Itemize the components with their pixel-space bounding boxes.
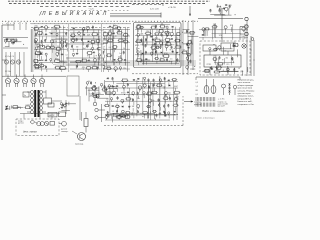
svg-text:0,047: 0,047: [26, 105, 30, 107]
svg-text:100: 100: [138, 113, 141, 115]
svg-text:транзисторов: транзисторов: [238, 93, 252, 95]
svg-text:C47: C47: [123, 48, 126, 50]
svg-text:УПЧ: УПЧ: [219, 35, 222, 37]
svg-text:Тр2: Тр2: [40, 63, 43, 65]
svg-text:ВЧ: ВЧ: [60, 65, 62, 67]
svg-text:5,6к: 5,6к: [168, 92, 171, 94]
svg-text:дет. канал: дет. канал: [23, 130, 37, 134]
svg-text:С15: С15: [226, 64, 229, 66]
svg-text:заны относит.: заны относит.: [238, 82, 252, 84]
svg-text:2,2к: 2,2к: [224, 51, 227, 53]
svg-text:розетке: розетке: [194, 104, 202, 106]
svg-text:0,5: 0,5: [66, 55, 68, 57]
svg-text:C47: C47: [108, 115, 111, 117]
svg-text:Напряжения ука-: Напряжения ука-: [238, 80, 255, 82]
svg-text:100: 100: [242, 36, 245, 38]
svg-text:0,047: 0,047: [17, 107, 21, 109]
svg-text:КТ315: КТ315: [11, 38, 16, 40]
svg-text:КТ315: КТ315: [207, 64, 212, 66]
svg-text:ПТК: ПТК: [164, 96, 167, 98]
svg-text:R2 10к: R2 10к: [5, 71, 11, 73]
svg-text:4,7: 4,7: [113, 24, 115, 26]
svg-text:100: 100: [88, 81, 91, 83]
svg-text:0,5 1к2 С4: 0,5 1к2 С4: [5, 56, 14, 58]
svg-text:УПЧ: УПЧ: [152, 39, 155, 41]
svg-text:УПЧ: УПЧ: [123, 68, 126, 70]
svg-text:УПЧ: УПЧ: [146, 31, 149, 33]
svg-text:33к: 33к: [226, 58, 229, 60]
svg-text:R7: R7: [118, 57, 120, 59]
svg-text:метром ВК7-9.: метром ВК7-9.: [238, 98, 252, 100]
svg-text:4,7: 4,7: [103, 47, 105, 49]
svg-text:0,047: 0,047: [174, 86, 178, 88]
svg-text:100: 100: [120, 113, 123, 115]
svg-text:33к: 33к: [76, 47, 79, 49]
svg-text:100: 100: [57, 46, 60, 48]
svg-text:100: 100: [46, 45, 49, 47]
svg-text:Подп. с Умножит.: Подп. с Умножит.: [202, 109, 226, 113]
svg-text:присоед.: присоед.: [75, 144, 84, 146]
svg-text:Л Е В Ы Й К А Н А Л: Л Е В Ы Й К А Н А Л: [41, 9, 107, 17]
svg-text:0,5: 0,5: [109, 47, 111, 49]
svg-text:Тр2: Тр2: [213, 24, 216, 26]
svg-text:VT3: VT3: [229, 5, 232, 7]
svg-text:0,25 1,2В: 0,25 1,2В: [150, 9, 159, 11]
svg-text:VT3: VT3: [92, 65, 95, 67]
svg-text:Д9Б: Д9Б: [140, 34, 143, 36]
svg-text:Др1: Др1: [83, 48, 86, 50]
svg-text:10k: 10k: [72, 38, 75, 40]
svg-text:Др1: Др1: [117, 30, 120, 32]
svg-text:C47: C47: [156, 45, 159, 47]
svg-text:0,1: 0,1: [196, 94, 199, 96]
svg-text:сопротивл. в Ом.: сопротивл. в Ом.: [238, 104, 255, 106]
svg-text:10k: 10k: [132, 106, 135, 108]
svg-text:0,5: 0,5: [160, 57, 162, 59]
svg-text:2,2к: 2,2к: [51, 45, 54, 47]
svg-text:0,047: 0,047: [175, 96, 179, 98]
svg-text:2,2к: 2,2к: [136, 39, 139, 41]
svg-text:к СВ-ПЧ: к СВ-ПЧ: [168, 7, 176, 9]
svg-text:0,5: 0,5: [170, 59, 172, 61]
svg-text:1,2: 1,2: [196, 86, 199, 88]
svg-text:= 1 ЭС: = 1 ЭС: [218, 99, 225, 101]
svg-text:КТ315: КТ315: [121, 93, 126, 95]
svg-text:Д2Е: Д2Е: [87, 34, 90, 36]
svg-text:Подп. в благодарн.: Подп. в благодарн.: [197, 117, 215, 120]
svg-text:Д9Б: Д9Б: [90, 96, 93, 98]
svg-text:VT3: VT3: [103, 39, 106, 41]
svg-text:КТ315: КТ315: [96, 93, 101, 95]
svg-text:Др1: Др1: [103, 31, 106, 33]
svg-text:100: 100: [185, 50, 188, 52]
svg-text:общего провода: общего провода: [238, 85, 254, 87]
svg-text:1к2: 1к2: [106, 98, 109, 100]
svg-text:VT3: VT3: [40, 44, 43, 46]
svg-text:сигнала. Режимы: сигнала. Режимы: [238, 90, 255, 92]
svg-text:33к: 33к: [233, 42, 236, 44]
svg-text:1к2: 1к2: [119, 53, 122, 55]
svg-text:L4: L4: [116, 104, 118, 106]
svg-text:Ёмкости в мкФ,: Ёмкости в мкФ,: [238, 100, 253, 103]
svg-text:0,5: 0,5: [216, 65, 218, 67]
svg-text:R12: R12: [155, 38, 158, 40]
svg-text:МП41: МП41: [107, 66, 111, 68]
svg-text:УПЧ: УПЧ: [34, 26, 37, 28]
svg-text:детект.: детект.: [18, 123, 24, 125]
svg-text:ВЧ: ВЧ: [36, 64, 38, 66]
svg-text:темпер.: темпер.: [61, 131, 69, 133]
svg-text:при отсутствии: при отсутствии: [238, 88, 253, 90]
svg-text:измерены вольт-: измерены вольт-: [238, 96, 255, 98]
svg-text:L4: L4: [55, 41, 57, 43]
svg-text:0,5: 0,5: [196, 82, 199, 84]
svg-text:L4: L4: [112, 111, 114, 113]
svg-text:МП41: МП41: [164, 53, 168, 55]
svg-text:ВЕСПР: ВЕСПР: [49, 115, 56, 117]
svg-text:33к: 33к: [137, 98, 140, 100]
svg-text:при t=20°: при t=20°: [218, 105, 226, 108]
